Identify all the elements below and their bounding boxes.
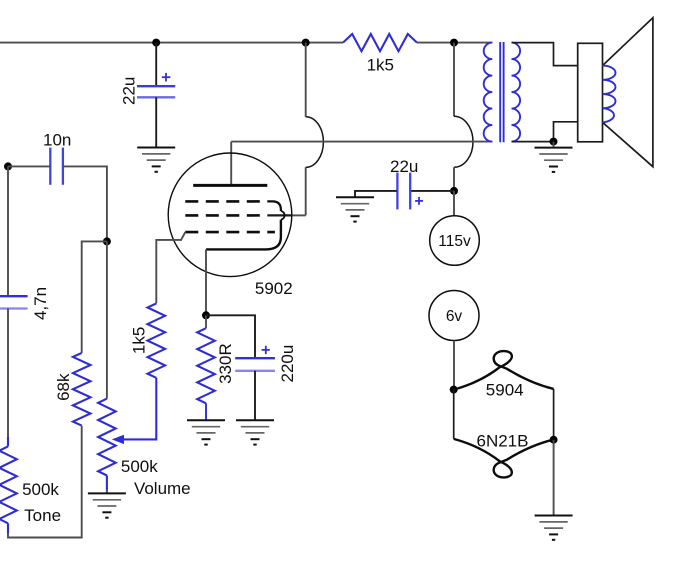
- resistor 1k5 grid stopper (vertical): [148, 303, 166, 377]
- wire 6v to heater node: [453, 341, 455, 390]
- wire node to 115v source: [453, 191, 455, 216]
- wire cathode node to 330R: [205, 315, 207, 328]
- wire junction down to volume pot: [106, 241, 108, 398]
- speaker LS1 voice coil: [603, 66, 616, 123]
- wiper arrow of volume pot: [112, 435, 124, 444]
- label + polarity of 220u: [262, 346, 270, 354]
- svg-text:Tone: Tone: [24, 506, 61, 525]
- node 68k / volume junction: [103, 237, 111, 245]
- wire secondary top to speaker: [512, 43, 578, 66]
- wire node to ground: [553, 142, 555, 148]
- svg-text:5904: 5904: [486, 381, 524, 400]
- node heater right junction: [550, 436, 558, 444]
- wire left column from input node down: [7, 166, 9, 295]
- wire screen-grid branch lower: [305, 167, 307, 215]
- potentiometer 500k Tone: [0, 446, 17, 523]
- svg-text:115v: 115v: [438, 233, 471, 250]
- wire heater right to ground: [553, 440, 555, 516]
- node cathode junction: [202, 311, 210, 319]
- wire 22u cap top lead: [155, 43, 157, 87]
- svg-text:68k: 68k: [54, 373, 73, 401]
- ground at heater return: [535, 516, 573, 540]
- wire B+ top rail left: [0, 42, 343, 44]
- wire 220u bottom lead: [254, 371, 256, 421]
- wire 1k5 to volume wiper (blue): [122, 378, 156, 440]
- wire B+ top rail right of R 1k5 to transformer primary top: [417, 42, 492, 44]
- tube 5902 envelope circle: [168, 153, 292, 277]
- svg-text:22u: 22u: [120, 77, 139, 105]
- svg-text:500k: 500k: [22, 480, 59, 499]
- ground at 22u supply filter: [336, 197, 374, 221]
- capacitor 10n: [50, 148, 63, 185]
- svg-text:10n: 10n: [43, 131, 71, 150]
- svg-text:22u: 22u: [390, 157, 418, 176]
- svg-text:4,7n: 4,7n: [31, 287, 50, 320]
- wire 22u left plate to ground jog: [355, 191, 397, 197]
- wire B+ branch upper: [453, 43, 455, 117]
- wire 4,7n to tone pot: [7, 308, 9, 437]
- wire cathode down to node: [205, 249, 207, 315]
- ground below 22u: [137, 148, 175, 172]
- capacitor C 220u cathode bypass (electrolytic): [235, 358, 275, 371]
- speaker LS1 cone: [603, 18, 653, 167]
- svg-text:220u: 220u: [278, 345, 297, 383]
- capacitor C 22u (electrolytic, B+ filter): [137, 86, 175, 97]
- svg-text:1k5: 1k5: [367, 56, 394, 75]
- ground at secondary: [535, 148, 573, 172]
- wire tone bottom lead (blue): [7, 523, 9, 533]
- speaker LS1 frame: [578, 43, 603, 142]
- source 115v circle: [430, 216, 480, 266]
- wire 330R bottom lead: [205, 403, 207, 420]
- svg-text:5902: 5902: [255, 279, 293, 298]
- wire 22u cap bottom lead: [155, 97, 157, 147]
- ground below 330R: [187, 420, 225, 444]
- svg-text:330R: 330R: [216, 343, 235, 384]
- capacitor 4,7n: [0, 296, 28, 308]
- tube 5902 grid g1 control (dashed row): [185, 231, 275, 234]
- wire g1 lead diagonal and out left: [156, 232, 185, 303]
- wire volume bottom lead (blue): [106, 476, 108, 491]
- source 6v circle (heater supply): [429, 291, 479, 341]
- node junction top wire / 22u cap: [152, 39, 160, 47]
- wire screen-grid branch upper: [305, 43, 307, 117]
- svg-text:6v: 6v: [446, 308, 463, 325]
- heater filament of 5904: [454, 351, 554, 390]
- wire cathode node to 220u: [206, 315, 255, 358]
- potentiometer 500k Volume: [98, 399, 116, 476]
- wire anode vertical into tube: [230, 142, 232, 186]
- capacitor C 22u supply filter (electrolytic): [397, 173, 410, 210]
- wire anode run from tube top to output transformer primary bottom: [231, 141, 492, 143]
- wire tone top lead (blue): [7, 437, 9, 446]
- label + polarity of 22u supply filter: [415, 197, 423, 205]
- transformer T1 secondary winding: [512, 43, 521, 142]
- tube 5902 strap lower and cathode: [206, 220, 281, 250]
- ground below volume pot: [88, 493, 126, 517]
- node input junction: [4, 162, 12, 170]
- node B+ / 22u / 115v junction: [450, 187, 458, 195]
- resistor 68k: [73, 353, 91, 426]
- wire volume bottom to ground: [106, 491, 108, 494]
- svg-text:500k: 500k: [121, 457, 158, 476]
- wire hop over anode wire (B+ branch): [454, 116, 473, 167]
- tube 5902 g3 end segment and strap corner: [267, 201, 281, 211]
- tube 5902 strap hop over screen wire: [281, 211, 285, 220]
- node heater left junction: [450, 386, 458, 394]
- resistor 1k5 (plate load): [343, 34, 417, 51]
- node junction top wire / B+ supply branch: [450, 39, 458, 47]
- node junction top wire / screen grid branch: [302, 39, 310, 47]
- heater filament of 6N21B: [454, 439, 554, 478]
- tube 5902 grid g3 (dashed row): [185, 200, 261, 203]
- wire filament right side down: [553, 389, 555, 440]
- wire secondary bottom to speaker: [512, 122, 578, 142]
- svg-text:1k5: 1k5: [130, 327, 149, 354]
- tube 5902 anode plate: [193, 184, 267, 187]
- wire 10n right plate to drop: [63, 166, 107, 241]
- wire hop over anode wire (screen branch): [306, 117, 324, 168]
- wire screen grid horizontal into tube: [267, 214, 292, 216]
- svg-text:6N21B: 6N21B: [477, 432, 529, 451]
- wire junction to 68k: [82, 241, 107, 353]
- transformer T1 core: [500, 42, 503, 142]
- tube 5902 grid g2 screen (dashed row): [185, 214, 261, 217]
- node secondary ground junction: [550, 138, 558, 146]
- wire B+ branch lower to 115v node: [453, 167, 455, 191]
- wire 22u right plate to node: [410, 190, 454, 192]
- transformer T1 primary winding: [484, 43, 493, 142]
- resistor 330R cathode bias: [197, 328, 215, 403]
- label + polarity of 22u: [162, 73, 171, 82]
- wire heater left side down: [453, 390, 455, 439]
- wire 68k bottom to tone pot bottom: [8, 426, 82, 538]
- ground below 220u: [236, 420, 274, 444]
- svg-text:Volume: Volume: [134, 479, 191, 498]
- wire node to 10n left plate: [8, 165, 50, 167]
